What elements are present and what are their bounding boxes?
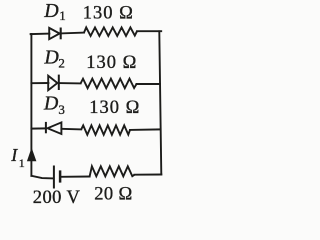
svg-text:20 Ω: 20 Ω — [94, 185, 132, 205]
wire R4 to bottom-right corner — [135, 174, 162, 176]
battery 200V long plate — [53, 166, 55, 189]
svg-text:130 Ω: 130 Ω — [86, 53, 137, 73]
wire left vertical bus — [30, 34, 32, 176]
svg-text:200 V: 200 V — [33, 188, 81, 208]
label D3 — [43, 93, 65, 118]
svg-text:130 Ω: 130 Ω — [89, 98, 140, 118]
wire D3 anode to R3 — [61, 128, 81, 131]
wire R1 to top-right corner — [137, 30, 161, 32]
svg-text:D: D — [43, 0, 59, 22]
label D2 — [43, 46, 65, 70]
svg-text:130 Ω: 130 Ω — [83, 3, 134, 23]
wire right vertical bus — [159, 31, 161, 174]
svg-text:D: D — [43, 46, 59, 68]
svg-text:1: 1 — [59, 8, 65, 23]
label D1 — [43, 0, 65, 23]
wire D2 cathode to R2 — [59, 82, 81, 84]
svg-text:2: 2 — [58, 56, 65, 71]
svg-text:1: 1 — [19, 156, 25, 170]
wire branch3 left lead — [31, 127, 45, 129]
diode D2 — [48, 75, 59, 91]
resistor R2 130ohm — [81, 79, 137, 89]
diode D3 (reversed) — [46, 122, 62, 134]
wire bottom-left to battery — [31, 176, 53, 179]
wire top-left segment to D1 anode — [31, 33, 50, 36]
wire branch2 left lead — [31, 82, 48, 84]
current arrow I1 — [27, 148, 37, 162]
resistor R1 130ohm — [84, 27, 137, 36]
wire battery to R4 — [61, 176, 90, 178]
wire D1 cathode to R1 — [61, 32, 84, 35]
svg-text:3: 3 — [58, 102, 65, 117]
svg-text:D: D — [43, 93, 59, 115]
wire R2 to right bus — [137, 83, 161, 85]
resistor R3 130ohm — [81, 125, 130, 134]
label I1 — [10, 145, 25, 170]
battery 200V short plate — [59, 170, 62, 182]
wire R3 to right bus — [130, 128, 160, 131]
resistor R4 20ohm — [90, 166, 135, 176]
svg-text:I: I — [10, 145, 18, 165]
diode D1 — [49, 28, 61, 40]
